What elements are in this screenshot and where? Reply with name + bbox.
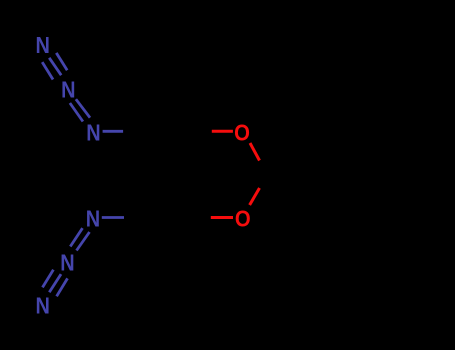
svg-text:N: N — [86, 205, 100, 231]
svg-text:N: N — [61, 77, 75, 103]
svg-text:O: O — [235, 206, 251, 232]
svg-text:N: N — [36, 293, 50, 319]
svg-text:O: O — [234, 120, 250, 146]
svg-text:N: N — [60, 250, 74, 276]
svg-text:N: N — [36, 32, 50, 58]
svg-text:N: N — [86, 119, 100, 145]
